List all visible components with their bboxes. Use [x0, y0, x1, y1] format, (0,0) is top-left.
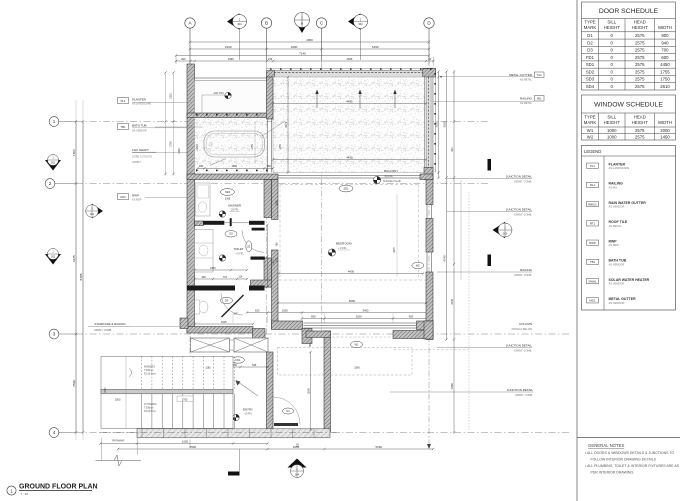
svg-text:1450: 1450	[660, 134, 670, 139]
svg-text:301: 301	[237, 22, 242, 26]
svg-text:R:163.6mm: R:163.6mm	[144, 374, 156, 376]
svg-text:301: 301	[450, 147, 454, 152]
svg-text:1000: 1000	[607, 134, 617, 139]
entry door swing	[273, 397, 300, 424]
svg-text:3075: 3075	[284, 121, 288, 127]
pathway break line	[96, 460, 142, 462]
black mark 2	[488, 255, 492, 267]
staircase outline	[101, 356, 233, 428]
grid bubble B	[261, 18, 271, 28]
wall porch east	[324, 331, 331, 432]
balcony right railing	[425, 77, 434, 174]
svg-text:+ 0 FFL: + 0 FFL	[338, 247, 347, 250]
wall right outer lower	[426, 178, 433, 205]
balcony floor stipple	[273, 77, 426, 173]
svg-text:R01: R01	[537, 98, 542, 101]
level marker left upper	[45, 155, 61, 171]
top dimension chain overall 4950	[190, 41, 429, 43]
toilet door swing D1	[242, 230, 264, 252]
svg-text:SD1: SD1	[586, 62, 595, 67]
balcony top railing band	[274, 71, 428, 80]
wall shower south hatch	[195, 221, 204, 226]
svg-text:ASMNT. COMB.: ASMNT. COMB.	[514, 213, 532, 216]
svg-text:WINDERS: WINDERS	[144, 367, 155, 369]
svg-text:4425: 4425	[72, 255, 76, 262]
svg-text:RAILING: RAILING	[609, 182, 624, 186]
svg-text:302: 302	[503, 232, 508, 235]
svg-text:700: 700	[661, 48, 669, 53]
wall entry west	[267, 352, 274, 430]
balcony left opening rails	[267, 119, 269, 173]
svg-text:3400: 3400	[363, 308, 369, 312]
svg-text:2040: 2040	[105, 387, 107, 393]
svg-text:W1: W1	[355, 342, 359, 346]
balcony slope arrows	[316, 92, 318, 108]
svg-text:2575: 2575	[635, 128, 645, 133]
shower door leaf line	[224, 222, 249, 224]
balcony inner dim 4430	[273, 159, 426, 161]
svg-text:TOILET: TOILET	[233, 247, 243, 251]
svg-text:SD3: SD3	[586, 77, 595, 82]
svg-text:1305: 1305	[210, 267, 216, 270]
svg-text:1605: 1605	[182, 439, 188, 443]
svg-text:RWP: RWP	[589, 241, 596, 245]
svg-text:2575: 2575	[635, 62, 645, 67]
wall west pier at wc	[180, 318, 188, 329]
svg-text:1000: 1000	[282, 308, 288, 312]
svg-text:302: 302	[358, 22, 363, 26]
wall toilet se block	[251, 280, 273, 287]
svg-text:5190: 5190	[372, 45, 379, 49]
wall right outer mid	[426, 219, 433, 253]
grid line D vertical	[428, 60, 430, 446]
svg-text:FD1: FD1	[586, 55, 595, 60]
shower oval SD2	[221, 189, 235, 196]
grid line 4 overlay	[100, 432, 340, 434]
wall bedroom south left block	[272, 321, 303, 330]
svg-text:JUNCTION DETAIL: JUNCTION DETAIL	[506, 208, 533, 212]
svg-text:4470: 4470	[393, 247, 396, 253]
toilet vanity	[195, 229, 214, 272]
svg-text:3: 3	[53, 332, 56, 337]
wall left outer	[187, 64, 195, 333]
svg-text:AS:LANDSCAPE: AS:LANDSCAPE	[132, 103, 152, 106]
svg-text:290: 290	[181, 57, 186, 61]
wall below bedroom horizontal	[393, 331, 433, 339]
svg-text:6050: 6050	[349, 299, 356, 303]
grid bubble D	[424, 18, 434, 28]
balcony top-right corner block	[423, 68, 436, 77]
bedroom dim 4400	[279, 273, 423, 275]
svg-text:302: 302	[51, 162, 56, 165]
svg-text:4495: 4495	[346, 99, 353, 103]
svg-text:3015: 3015	[442, 121, 446, 127]
section marker bottom	[288, 459, 307, 478]
grid bubble 3	[49, 329, 59, 339]
svg-text:1605: 1605	[221, 321, 227, 324]
svg-text:1750: 1750	[660, 77, 670, 82]
tub diagonal leader	[210, 159, 226, 166]
svg-text:WIDTH: WIDTH	[658, 120, 672, 125]
wall se corner block	[424, 321, 433, 339]
svg-text:RWP: RWP	[609, 239, 618, 243]
bottom dim chain 2	[118, 448, 433, 450]
wc door swing	[221, 293, 243, 315]
svg-text:SD2: SD2	[225, 190, 231, 194]
svg-text:HEIGHT: HEIGHT	[604, 25, 621, 30]
svg-text:620: 620	[255, 308, 260, 312]
svg-text:FHC SHAFT: FHC SHAFT	[132, 148, 149, 152]
svg-text:DOOR SCHEDULE: DOOR SCHEDULE	[599, 8, 659, 15]
wall wc south	[187, 327, 253, 334]
tub room vertical dim	[254, 122, 256, 165]
svg-text:2575: 2575	[635, 33, 645, 38]
wall planter south	[187, 113, 270, 118]
door schedule table	[582, 2, 676, 90]
title circle	[7, 486, 16, 495]
svg-text:ASMNT. COMB.: ASMNT. COMB.	[514, 274, 532, 277]
svg-text:ASMNT: ASMNT	[132, 161, 141, 164]
wc toilet bowl	[199, 301, 208, 313]
planter strip	[195, 81, 267, 114]
sheet divider line	[576, 0, 578, 501]
svg-text:-100 TOC: -100 TOC	[213, 91, 224, 95]
svg-text:8500: 8500	[190, 445, 197, 449]
svg-text:PL1: PL1	[590, 164, 595, 168]
svg-text:TYPE: TYPE	[584, 20, 595, 25]
svg-text:SD2: SD2	[586, 69, 595, 74]
svg-text:• ALL DOORS & WINDOWS DETAILS: • ALL DOORS & WINDOWS DETAILS & JUNCTION…	[585, 451, 674, 455]
svg-text:SHOWER: SHOWER	[228, 204, 241, 208]
svg-text:MARK: MARK	[584, 25, 597, 30]
label rwp	[118, 194, 129, 200]
svg-text:16 TREADS: 16 TREADS	[144, 403, 157, 406]
bedroom label	[328, 249, 335, 256]
bedroom dashed inset	[280, 184, 419, 186]
svg-text:JUNCTION DETAIL: JUNCTION DETAIL	[506, 344, 533, 348]
stair treads lower flight	[141, 394, 143, 429]
wall bedroom south right block	[417, 321, 434, 330]
svg-text:BEDROOM: BEDROOM	[336, 242, 352, 246]
svg-text:SOLAR WATER HEATER: SOLAR WATER HEATER	[609, 278, 650, 282]
svg-text:760: 760	[276, 242, 279, 247]
svg-text:1315: 1315	[169, 93, 172, 99]
svg-text:1440: 1440	[178, 148, 181, 154]
svg-text:900: 900	[409, 314, 414, 318]
top extension lines	[175, 55, 177, 64]
wall pier wc se	[253, 329, 266, 344]
svg-text:301: 301	[90, 213, 95, 216]
svg-text:2575: 2575	[635, 40, 645, 45]
planter TOC marker	[225, 92, 231, 98]
svg-text:AS:MS: AS:MS	[609, 185, 618, 189]
grid bubble A	[185, 18, 195, 28]
svg-text:2000: 2000	[660, 128, 670, 133]
wall balcony left upper	[267, 77, 274, 119]
stair up arc	[129, 369, 131, 377]
toilet oval D2	[225, 231, 237, 237]
svg-text:1455: 1455	[251, 144, 254, 150]
grid line A vertical	[189, 60, 191, 448]
svg-text:R:163.6mm: R:163.6mm	[144, 411, 156, 413]
svg-text:2530: 2530	[306, 388, 310, 394]
svg-text:JUNCTION DETAIL: JUNCTION DETAIL	[506, 175, 533, 179]
svg-text:PER INTERIOR DRAWING.: PER INTERIOR DRAWING.	[591, 470, 635, 474]
svg-text:COLUMN: COLUMN	[519, 322, 532, 326]
tub room dims	[198, 167, 274, 169]
svg-text:303: 303	[51, 256, 56, 259]
svg-text:245: 245	[276, 257, 279, 262]
svg-text:RAIN WATER GUTTER: RAIN WATER GUTTER	[609, 201, 647, 205]
grid line 4 horizontal	[76, 432, 570, 434]
left dim 1315 upper	[165, 72, 167, 175]
svg-text:2545: 2545	[450, 298, 454, 304]
dashed canopy rect	[278, 348, 413, 376]
svg-text:4400: 4400	[348, 269, 355, 273]
fd1 oval	[232, 357, 245, 363]
svg-text:2575: 2575	[635, 134, 645, 139]
svg-text:AS:VENDOR: AS:VENDOR	[132, 130, 147, 133]
svg-text:2575: 2575	[635, 77, 645, 82]
svg-text:ENTRY: ENTRY	[243, 408, 253, 412]
svg-text:TB1: TB1	[121, 125, 126, 129]
svg-text:1755: 1755	[660, 69, 670, 74]
svg-text:1180: 1180	[206, 368, 212, 370]
svg-text:1005: 1005	[115, 399, 121, 402]
svg-text:• ALL PLUMBING, TOILET & INTER: • ALL PLUMBING, TOILET & INTERIOR FIXTUR…	[585, 464, 680, 468]
svg-text:ASMNT. COMB.: ASMNT. COMB.	[514, 180, 532, 183]
bedroom vertical dim 4470	[396, 194, 398, 277]
balcony diagonal leader	[262, 121, 286, 136]
wall toilet east lower	[264, 258, 272, 287]
svg-text:BATH TUB: BATH TUB	[609, 259, 627, 263]
svg-text:AS:METAL: AS:METAL	[520, 102, 533, 105]
balcony top outer line	[267, 68, 434, 70]
svg-text:FD1: FD1	[236, 358, 241, 362]
dashed profile lines right	[468, 192, 470, 430]
svg-text:HEAD: HEAD	[634, 115, 646, 120]
section marker pointing right	[86, 204, 103, 218]
svg-text:HEIGHT: HEIGHT	[632, 120, 649, 125]
legend table	[582, 146, 676, 311]
svg-text:R04: R04	[121, 195, 126, 199]
toilet dims	[195, 269, 248, 271]
grid line 2 horizontal	[76, 183, 490, 185]
top dim chain detail	[176, 60, 434, 62]
svg-text:2: 2	[49, 181, 52, 186]
level marker left lower	[45, 249, 61, 265]
svg-text:B: B	[301, 22, 303, 26]
top dim chain segments	[190, 48, 429, 50]
svg-text:PATHWAY: PATHWAY	[112, 439, 125, 443]
tub room floor stipple	[195, 118, 267, 173]
svg-text:GENERAL NOTES: GENERAL NOTES	[588, 443, 625, 448]
bath tub	[204, 131, 265, 157]
svg-text:8485: 8485	[79, 273, 83, 280]
balcony inner dim vertical 3075	[287, 77, 289, 173]
svg-text:2230: 2230	[225, 45, 232, 49]
shower door hinge bar	[230, 218, 232, 226]
svg-text:STAIRCASE & RAILING: STAIRCASE & RAILING	[94, 322, 126, 326]
svg-text:CORE CUTOUTS: CORE CUTOUTS	[132, 156, 152, 159]
svg-text:2610: 2610	[660, 84, 670, 89]
svg-text:4740: 4740	[442, 255, 446, 261]
svg-text:W1: W1	[587, 128, 594, 133]
svg-text:RWP: RWP	[132, 194, 139, 198]
balcony top-left corner block	[267, 71, 275, 84]
svg-text:1990: 1990	[228, 57, 234, 61]
svg-text:W2: W2	[416, 263, 420, 267]
svg-text:FOLLOW INTERIOR DRAWING DETAIL: FOLLOW INTERIOR DRAWING DETAILS	[591, 457, 657, 461]
mid opening sliding door SD1 rails	[278, 175, 420, 177]
wc dims	[195, 323, 254, 325]
black mark 1	[488, 159, 492, 171]
balcony inner dim 4495	[273, 103, 426, 105]
left chain extension	[75, 100, 77, 440]
svg-text:1860: 1860	[232, 165, 238, 168]
svg-text:4695: 4695	[347, 57, 353, 61]
svg-text:SILL: SILL	[607, 115, 616, 120]
wall toilet south (wc north)	[187, 286, 235, 291]
svg-text:SUNKEN SLAB: SUNKEN SLAB	[383, 180, 401, 183]
svg-text:WIDTH: WIDTH	[658, 25, 672, 30]
grid bubble 1	[49, 117, 59, 127]
svg-text:SILL: SILL	[607, 20, 616, 25]
svg-text:940: 940	[661, 40, 669, 45]
svg-text:RAILING: RAILING	[520, 97, 533, 101]
porch dims	[310, 352, 312, 430]
svg-text:D2: D2	[229, 232, 233, 236]
bottom dim mid row	[247, 312, 429, 314]
svg-text:W2: W2	[587, 134, 594, 139]
svg-text:MARK: MARK	[584, 120, 597, 125]
shower south jamb west	[203, 221, 224, 225]
wc north jamb east	[249, 286, 265, 291]
svg-text:TG1: TG1	[537, 74, 542, 77]
svg-text:B: B	[265, 21, 268, 26]
svg-text:AS:LANDSCAPE: AS:LANDSCAPE	[609, 166, 630, 170]
svg-text:2575: 2575	[635, 48, 645, 53]
kerb joints	[141, 429, 143, 438]
section marker right	[493, 222, 513, 238]
svg-text:2575: 2575	[635, 69, 645, 74]
svg-text:D1: D1	[587, 33, 593, 38]
top dim chain 7140	[176, 55, 429, 57]
toilet east jamb bars	[252, 228, 265, 231]
svg-text:LEGEND: LEGEND	[584, 149, 601, 154]
label planter	[118, 98, 129, 104]
grid line B vertical	[266, 64, 268, 335]
svg-text:RWG1: RWG1	[588, 202, 597, 206]
section marker B top	[295, 13, 310, 34]
svg-text:+ 0 FFL: + 0 FFL	[235, 253, 244, 256]
svg-text:4950: 4950	[306, 38, 313, 42]
svg-text:246: 246	[268, 57, 273, 61]
svg-text:D3: D3	[225, 298, 229, 302]
wall bottom kerb	[137, 429, 330, 438]
svg-text:T:300mm: T:300mm	[144, 408, 154, 410]
svg-text:1455: 1455	[279, 144, 282, 150]
window schedule table	[582, 95, 676, 140]
svg-text:SD4: SD4	[586, 84, 595, 89]
right wall window W2 rails	[426, 252, 428, 272]
svg-text:-50 FFL: -50 FFL	[384, 175, 393, 178]
svg-text:AS:VENDOR: AS:VENDOR	[609, 262, 625, 266]
wall bedroom west lower	[272, 250, 279, 329]
svg-text:D1: D1	[286, 409, 290, 413]
svg-text:SD1: SD1	[343, 186, 349, 190]
right wall window W1 rails	[426, 205, 428, 219]
svg-text:545: 545	[252, 364, 257, 367]
svg-text:BALCONY: BALCONY	[384, 169, 398, 173]
shower tray	[196, 183, 211, 216]
svg-text:2575: 2575	[635, 84, 645, 89]
svg-text:RT1: RT1	[590, 222, 596, 226]
svg-text:2700: 2700	[182, 398, 188, 401]
svg-text:D3: D3	[587, 48, 593, 53]
svg-text:AS:VENDOR: AS:VENDOR	[609, 282, 625, 286]
wall shower east	[264, 180, 272, 218]
svg-text:7140: 7140	[299, 51, 306, 55]
balcony label	[373, 176, 380, 183]
svg-text:HEAD: HEAD	[634, 20, 646, 25]
right vertical dim lines	[460, 180, 462, 280]
svg-text:4450: 4450	[660, 62, 670, 67]
svg-text:MG1: MG1	[589, 299, 596, 303]
grid line 3 horizontal	[76, 333, 570, 335]
label bath tub	[118, 124, 129, 130]
wall porch north stub	[306, 331, 331, 338]
svg-text:-20 FFL: -20 FFL	[244, 413, 253, 416]
bedroom oval W2	[412, 262, 424, 268]
wall pier hall	[302, 329, 312, 344]
grid bubble 4	[49, 428, 59, 438]
bedroom oval SD1	[339, 185, 353, 192]
tub leader line	[155, 126, 202, 128]
wall bedroom west	[272, 180, 279, 220]
svg-text:JUNCTION DETAIL: JUNCTION DETAIL	[507, 388, 534, 392]
svg-text:D2: D2	[587, 40, 593, 45]
svg-text:RL1: RL1	[590, 183, 596, 187]
svg-text:WINDOW SCHEDULE: WINDOW SCHEDULE	[594, 102, 663, 109]
section cut flag	[239, 449, 241, 472]
right dim chain 1	[446, 72, 448, 340]
svg-text:AS:VENDOR: AS:VENDOR	[609, 301, 625, 305]
svg-text:1 : 40: 1 : 40	[21, 492, 29, 496]
svg-text:180: 180	[199, 165, 204, 168]
svg-text:600: 600	[661, 55, 669, 60]
bedroom w1 oval	[351, 341, 363, 347]
svg-text:1: 1	[53, 119, 56, 124]
svg-text:PL1: PL1	[121, 99, 126, 103]
svg-text:BATH TUB: BATH TUB	[132, 124, 147, 128]
svg-text:PLANTER: PLANTER	[609, 162, 626, 166]
svg-text:AS:METAL: AS:METAL	[520, 78, 533, 81]
stair treads upper flight (dashed)	[141, 356, 143, 389]
svg-text:5190: 5190	[376, 445, 383, 449]
svg-text:280: 280	[267, 165, 272, 168]
svg-text:ASMNT. COMB.: ASMNT. COMB.	[515, 394, 533, 397]
svg-text:1440: 1440	[196, 144, 199, 150]
stair dim	[125, 356, 127, 428]
section marker 301 top	[227, 13, 247, 29]
svg-text:-20 FFL: -20 FFL	[230, 209, 239, 212]
svg-text:4430: 4430	[346, 155, 353, 159]
svg-text:HEIGHT: HEIGHT	[632, 25, 649, 30]
svg-text:PLANTER: PLANTER	[132, 98, 147, 102]
svg-text:HEIGHT: HEIGHT	[604, 120, 621, 125]
wall mid horizontal right part	[420, 174, 433, 180]
